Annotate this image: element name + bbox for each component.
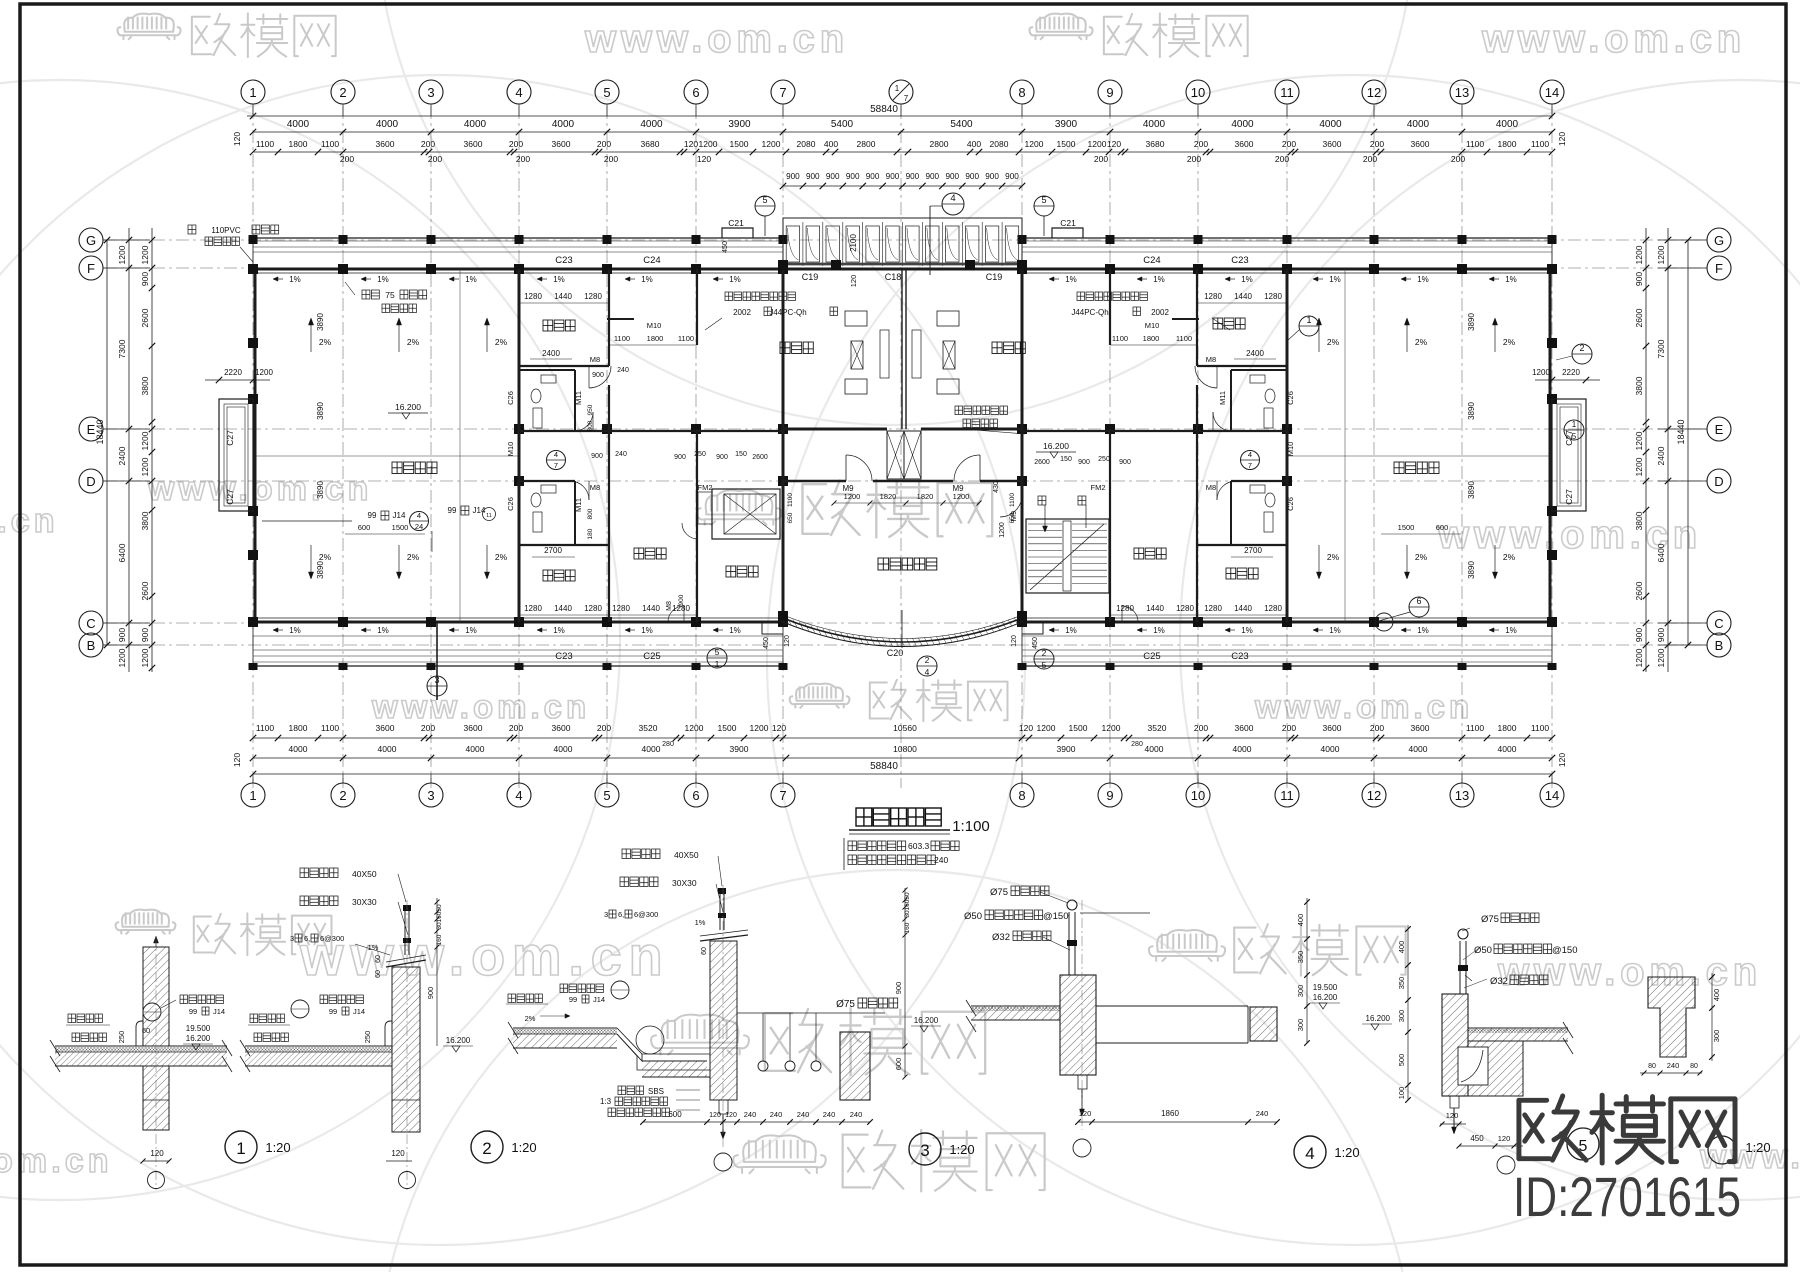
svg-text:3: 3 xyxy=(604,910,608,919)
svg-text:3520: 3520 xyxy=(1148,723,1167,733)
detail 4 parapet with railing xyxy=(966,900,1277,1130)
svg-text:18440: 18440 xyxy=(95,419,105,444)
svg-text:2%: 2% xyxy=(1415,552,1428,562)
svg-text:C25: C25 xyxy=(1143,651,1160,662)
svg-text:600: 600 xyxy=(894,1058,903,1071)
central flue shafts xyxy=(887,431,921,479)
svg-text:7300: 7300 xyxy=(117,339,127,358)
reception hall labels xyxy=(780,342,813,354)
right rooms partitions xyxy=(1022,269,1287,622)
svg-text:200: 200 xyxy=(1363,154,1377,164)
svg-text:900: 900 xyxy=(965,172,979,181)
svg-text:2%: 2% xyxy=(1503,552,1516,562)
svg-text:3: 3 xyxy=(290,934,294,943)
svg-text:240: 240 xyxy=(1667,1061,1680,1070)
svg-text:3: 3 xyxy=(920,1141,929,1160)
svg-text:1%: 1% xyxy=(289,275,301,284)
svg-text:120: 120 xyxy=(725,1112,737,1119)
svg-text:1280: 1280 xyxy=(1204,604,1222,613)
svg-text:C26: C26 xyxy=(1286,497,1295,511)
note box xyxy=(843,838,845,870)
svg-text:900: 900 xyxy=(591,453,603,460)
svg-text:4000: 4000 xyxy=(1496,119,1519,130)
svg-text:10560: 10560 xyxy=(893,723,917,733)
svg-text:4000: 4000 xyxy=(287,119,310,130)
left rooms bath fixtures xyxy=(531,375,556,532)
svg-text:4: 4 xyxy=(925,667,930,677)
svg-text:4000: 4000 xyxy=(552,119,575,130)
svg-text:2: 2 xyxy=(339,85,346,100)
detail 4 dims xyxy=(1073,898,1340,1157)
svg-text:5: 5 xyxy=(603,788,610,803)
svg-text:1200: 1200 xyxy=(140,245,150,264)
svg-text:1440: 1440 xyxy=(554,604,572,613)
svg-text:2: 2 xyxy=(339,788,346,803)
svg-text:4: 4 xyxy=(515,85,522,100)
window labels on walls xyxy=(555,255,1248,662)
svg-text:2800: 2800 xyxy=(857,139,876,149)
svg-text:430: 430 xyxy=(993,481,1000,493)
svg-text:www.om.cn: www.om.cn xyxy=(371,688,590,725)
left rooms partitions xyxy=(519,269,783,622)
svg-text:J14: J14 xyxy=(593,995,605,1004)
svg-text:4000: 4000 xyxy=(1409,744,1428,754)
svg-text:3600: 3600 xyxy=(1411,723,1430,733)
svg-text:4: 4 xyxy=(1305,1144,1314,1163)
roof areas interior lines xyxy=(255,269,1550,622)
svg-text:120: 120 xyxy=(232,753,242,767)
svg-text:900: 900 xyxy=(1005,172,1019,181)
svg-text:6: 6 xyxy=(692,788,699,803)
svg-text:200: 200 xyxy=(1451,154,1465,164)
svg-text:400: 400 xyxy=(1397,941,1406,954)
svg-text:6: 6 xyxy=(1416,596,1421,606)
svg-text:240: 240 xyxy=(744,1110,757,1119)
svg-text:1200: 1200 xyxy=(1634,245,1644,264)
svg-text:C: C xyxy=(1714,616,1723,631)
svg-text:1200: 1200 xyxy=(1656,245,1666,264)
svg-text:500: 500 xyxy=(1397,1054,1406,1067)
svg-text:4000: 4000 xyxy=(376,119,399,130)
svg-text:60: 60 xyxy=(142,1026,150,1035)
svg-text:7: 7 xyxy=(904,94,909,103)
svg-text:2%: 2% xyxy=(1327,337,1340,347)
svg-text:1%: 1% xyxy=(553,275,565,284)
svg-text:10: 10 xyxy=(1191,85,1205,100)
svg-text:4000: 4000 xyxy=(1498,744,1517,754)
svg-text:www.om.cn: www.om.cn xyxy=(147,470,373,508)
svg-text:2600: 2600 xyxy=(1634,581,1644,600)
svg-text:1280: 1280 xyxy=(524,292,542,301)
svg-text:1820: 1820 xyxy=(880,492,897,501)
svg-text:120: 120 xyxy=(1011,635,1018,647)
svg-text:C26: C26 xyxy=(506,391,515,405)
svg-text:www.om.cn: www.om.cn xyxy=(1497,950,1762,994)
svg-text:250: 250 xyxy=(363,1031,372,1044)
svg-text:3890: 3890 xyxy=(316,313,325,331)
svg-text:1280: 1280 xyxy=(1264,604,1282,613)
svg-text:110PVC: 110PVC xyxy=(211,226,240,235)
svg-text:2220: 2220 xyxy=(224,368,242,377)
svg-text:1%: 1% xyxy=(729,626,741,635)
svg-text:30: 30 xyxy=(436,922,443,930)
svg-text:350: 350 xyxy=(1296,951,1305,964)
svg-text:240: 240 xyxy=(615,451,627,458)
svg-text:2%: 2% xyxy=(1503,337,1516,347)
svg-text:900: 900 xyxy=(674,454,686,461)
roof dims 3890 xyxy=(316,313,1476,579)
svg-text:1800: 1800 xyxy=(289,723,308,733)
svg-text:1%: 1% xyxy=(1417,626,1429,635)
svg-text:www.om.cn: www.om.cn xyxy=(1481,17,1746,61)
svg-text:C26: C26 xyxy=(506,497,515,511)
svg-text:400: 400 xyxy=(967,139,981,149)
svg-text:2600: 2600 xyxy=(752,454,768,461)
svg-text:1800: 1800 xyxy=(289,139,308,149)
svg-text:2220: 2220 xyxy=(1562,368,1580,377)
svg-text:300: 300 xyxy=(1296,985,1305,998)
louvre labels xyxy=(802,234,1003,288)
svg-text:C19: C19 xyxy=(986,272,1003,282)
svg-text:1%: 1% xyxy=(695,918,706,927)
svg-text:M8: M8 xyxy=(666,601,673,611)
svg-text:240: 240 xyxy=(1256,1109,1269,1118)
detail 5 labels xyxy=(1462,913,1578,988)
svg-text:5: 5 xyxy=(1041,195,1046,205)
svg-text:2%: 2% xyxy=(1327,552,1340,562)
svg-text:3600: 3600 xyxy=(464,723,483,733)
detail 1 bubble xyxy=(225,1131,291,1163)
svg-text:1%: 1% xyxy=(1153,275,1165,284)
svg-text:om.cn: om.cn xyxy=(0,1142,113,1180)
svg-text:3900: 3900 xyxy=(728,119,751,130)
svg-text:9: 9 xyxy=(1106,85,1113,100)
svg-text:1: 1 xyxy=(249,85,256,100)
letter bubbles xyxy=(79,228,1731,657)
svg-text:F: F xyxy=(1715,261,1723,276)
svg-text:6,: 6, xyxy=(304,934,310,943)
detail 4 labels xyxy=(964,886,1070,950)
detail 3 labels xyxy=(506,849,723,1117)
svg-text:1200: 1200 xyxy=(953,492,970,501)
svg-text:200: 200 xyxy=(1282,723,1296,733)
svg-text:1200: 1200 xyxy=(117,245,127,264)
detail 3 right dim chain xyxy=(894,888,941,1080)
svg-text:1200: 1200 xyxy=(1634,431,1644,450)
svg-text:4: 4 xyxy=(417,511,421,520)
svg-text:1100: 1100 xyxy=(787,493,794,507)
svg-text:160: 160 xyxy=(904,922,911,933)
svg-text:1200: 1200 xyxy=(1532,368,1550,377)
svg-text:1100: 1100 xyxy=(321,723,340,733)
svg-text:M8: M8 xyxy=(590,355,600,364)
svg-text:900: 900 xyxy=(140,628,150,642)
svg-text:1500: 1500 xyxy=(1398,523,1415,532)
svg-text:6: 6 xyxy=(692,85,699,100)
svg-text:1200: 1200 xyxy=(1088,139,1107,149)
svg-text:900: 900 xyxy=(592,372,604,379)
svg-text:3800: 3800 xyxy=(140,376,150,395)
svg-text:160: 160 xyxy=(436,911,443,922)
svg-text:16.200: 16.200 xyxy=(1043,441,1069,451)
svg-text:3520: 3520 xyxy=(639,723,658,733)
watermark row1 xyxy=(117,14,180,40)
svg-text:1%: 1% xyxy=(289,626,301,635)
svg-text:Ø50: Ø50 xyxy=(964,911,982,922)
svg-text:120: 120 xyxy=(232,132,242,146)
svg-text:3890: 3890 xyxy=(1467,313,1476,331)
svg-text:14: 14 xyxy=(1545,788,1559,803)
top dimension chains xyxy=(232,104,1567,189)
svg-text:1500: 1500 xyxy=(1057,139,1076,149)
svg-text:B: B xyxy=(1715,638,1724,653)
svg-text:1500: 1500 xyxy=(1069,723,1088,733)
svg-text:1%: 1% xyxy=(1329,275,1341,284)
svg-text:2: 2 xyxy=(1579,343,1584,353)
svg-text:1100: 1100 xyxy=(1466,723,1485,733)
svg-text:3900: 3900 xyxy=(1057,744,1076,754)
svg-text:1%: 1% xyxy=(729,275,741,284)
svg-text:3600: 3600 xyxy=(1323,139,1342,149)
svg-text:M11: M11 xyxy=(574,498,583,512)
svg-text:10: 10 xyxy=(1191,788,1205,803)
svg-text:80: 80 xyxy=(1648,1063,1656,1070)
svg-text:1%: 1% xyxy=(465,626,477,635)
svg-text:1%: 1% xyxy=(1329,626,1341,635)
svg-text:5: 5 xyxy=(715,647,720,657)
detail circle 4 top xyxy=(930,193,964,275)
svg-text:240: 240 xyxy=(823,1110,836,1119)
svg-text:4000: 4000 xyxy=(289,744,308,754)
detail 1 wall section xyxy=(50,936,232,1190)
top balcony left wing xyxy=(249,235,1557,269)
svg-text:2100: 2100 xyxy=(849,234,858,252)
svg-text:900: 900 xyxy=(866,172,880,181)
svg-text:120: 120 xyxy=(784,635,791,647)
svg-text:3: 3 xyxy=(427,85,434,100)
svg-text:600: 600 xyxy=(1436,523,1449,532)
svg-text:1440: 1440 xyxy=(642,604,660,613)
svg-text:450: 450 xyxy=(722,241,729,253)
curved front wall xyxy=(778,610,1027,648)
svg-text:3890: 3890 xyxy=(316,481,325,499)
svg-text:M8: M8 xyxy=(1206,355,1216,364)
svg-text:1860: 1860 xyxy=(1161,1109,1179,1118)
svg-text:14: 14 xyxy=(1545,85,1559,100)
svg-text:1%: 1% xyxy=(641,626,653,635)
svg-text:5: 5 xyxy=(1042,660,1047,670)
svg-text:M8: M8 xyxy=(1206,483,1216,492)
svg-text:280: 280 xyxy=(1131,741,1143,748)
level marks 16.200 xyxy=(388,402,1076,458)
svg-text:12: 12 xyxy=(1367,788,1381,803)
svg-text:900: 900 xyxy=(925,172,939,181)
svg-text:1800: 1800 xyxy=(1498,723,1517,733)
svg-text:2400: 2400 xyxy=(1656,446,1666,465)
svg-text:900: 900 xyxy=(1634,272,1644,286)
svg-text:200: 200 xyxy=(1194,139,1208,149)
svg-text:1%: 1% xyxy=(1153,626,1165,635)
svg-text:40X50: 40X50 xyxy=(352,869,377,879)
svg-text:FM2: FM2 xyxy=(698,483,713,492)
svg-text:900: 900 xyxy=(906,172,920,181)
svg-text:1280: 1280 xyxy=(1204,292,1222,301)
left rooms doors xyxy=(570,366,684,622)
svg-text:200: 200 xyxy=(340,154,354,164)
svg-text:2002: 2002 xyxy=(733,308,751,317)
svg-text:@150: @150 xyxy=(1552,945,1578,956)
left rooms dims xyxy=(506,292,794,615)
svg-text:1:100: 1:100 xyxy=(952,818,990,835)
svg-text:99: 99 xyxy=(329,1007,337,1016)
svg-text:C19: C19 xyxy=(802,272,819,282)
svg-text:250: 250 xyxy=(117,1031,126,1044)
svg-text:C23: C23 xyxy=(555,255,572,266)
svg-text:99: 99 xyxy=(368,511,377,520)
svg-text:200: 200 xyxy=(428,154,442,164)
svg-text:7: 7 xyxy=(779,85,786,100)
detail 3 bubble xyxy=(909,1133,975,1165)
svg-text:120: 120 xyxy=(709,1112,721,1119)
svg-text:J44PC-Qh: J44PC-Qh xyxy=(769,308,806,317)
svg-text:1820: 1820 xyxy=(917,492,934,501)
svg-text:1280: 1280 xyxy=(1176,604,1194,613)
svg-text:@150: @150 xyxy=(1043,911,1069,922)
svg-text:C21: C21 xyxy=(1060,218,1076,228)
svg-text:1200: 1200 xyxy=(1634,457,1644,476)
svg-text:4000: 4000 xyxy=(1233,744,1252,754)
svg-text:1200: 1200 xyxy=(1656,648,1666,667)
svg-text:Ø75: Ø75 xyxy=(990,887,1008,898)
svg-text:1100: 1100 xyxy=(678,334,694,343)
svg-text:4: 4 xyxy=(515,788,522,803)
detail 2 bubble xyxy=(471,1131,537,1163)
detail 2 parapet section xyxy=(240,900,426,1190)
svg-text:1:3: 1:3 xyxy=(600,1097,612,1106)
svg-text:1500: 1500 xyxy=(730,139,749,149)
grid bubbles top xyxy=(241,80,1564,116)
svg-text:4: 4 xyxy=(554,450,558,459)
svg-text:400: 400 xyxy=(824,139,838,149)
svg-text:120: 120 xyxy=(1557,132,1567,146)
svg-text:1800: 1800 xyxy=(1143,334,1160,343)
svg-text:4000: 4000 xyxy=(466,744,485,754)
svg-text:16.200: 16.200 xyxy=(1366,1014,1391,1023)
svg-text:C24: C24 xyxy=(1143,255,1160,266)
right rooms doors xyxy=(1122,366,1236,622)
svg-text:1100: 1100 xyxy=(321,139,340,149)
svg-text:99: 99 xyxy=(448,506,457,515)
svg-text:1280: 1280 xyxy=(584,292,602,301)
svg-text:3900: 3900 xyxy=(1055,119,1078,130)
svg-text:350: 350 xyxy=(1397,977,1406,990)
svg-text:240: 240 xyxy=(797,1110,810,1119)
svg-text:1100: 1100 xyxy=(1112,334,1128,343)
svg-text:M10: M10 xyxy=(647,321,662,330)
svg-text:ID:2701615: ID:2701615 xyxy=(1513,1165,1741,1228)
svg-text:6400: 6400 xyxy=(117,543,127,562)
svg-text:30X30: 30X30 xyxy=(352,897,377,907)
svg-text:1200: 1200 xyxy=(844,492,861,501)
svg-text:2600: 2600 xyxy=(140,308,150,327)
svg-text:1280: 1280 xyxy=(1264,292,1282,301)
svg-text:30: 30 xyxy=(904,910,911,918)
svg-text:6@300: 6@300 xyxy=(320,934,344,943)
svg-text:900: 900 xyxy=(886,172,900,181)
svg-text:3600: 3600 xyxy=(376,723,395,733)
svg-text:C20: C20 xyxy=(887,648,904,658)
svg-text:30X30: 30X30 xyxy=(672,878,697,888)
svg-text:200: 200 xyxy=(1194,723,1208,733)
svg-text:8: 8 xyxy=(1018,85,1025,100)
svg-text:1100: 1100 xyxy=(1009,493,1016,507)
svg-text:1%: 1% xyxy=(641,275,653,284)
detail circle 2 right edge xyxy=(1556,343,1592,364)
svg-text:1200: 1200 xyxy=(140,648,150,667)
svg-text:99: 99 xyxy=(569,995,577,1004)
wall columns xyxy=(248,264,1557,627)
svg-text:80: 80 xyxy=(1690,1063,1698,1070)
svg-text:600: 600 xyxy=(668,1110,682,1119)
svg-text:120: 120 xyxy=(1446,1111,1459,1120)
detail circle 3 bottom-left xyxy=(427,622,447,700)
svg-text:603.3: 603.3 xyxy=(908,841,930,851)
svg-text:M10: M10 xyxy=(506,442,515,457)
svg-text:om.cn: om.cn xyxy=(0,502,59,540)
svg-text:13: 13 xyxy=(1455,788,1469,803)
svg-text:1280: 1280 xyxy=(1116,604,1134,613)
svg-text:1%: 1% xyxy=(368,943,379,952)
svg-text:120: 120 xyxy=(1498,1134,1511,1143)
svg-text:120: 120 xyxy=(1079,1109,1092,1118)
svg-text:1280: 1280 xyxy=(612,604,630,613)
svg-text:3890: 3890 xyxy=(1467,561,1476,579)
svg-text:280: 280 xyxy=(662,741,674,748)
detail circle 5 top-right xyxy=(1034,195,1083,238)
svg-text:450: 450 xyxy=(1032,637,1039,649)
svg-text:1%: 1% xyxy=(1241,275,1253,284)
detail 1 labels xyxy=(66,995,225,1189)
svg-text:240: 240 xyxy=(850,1110,863,1119)
curved wall labels xyxy=(707,622,1054,677)
svg-text:900: 900 xyxy=(1078,459,1090,466)
svg-text:900: 900 xyxy=(426,987,435,1000)
svg-text:1%: 1% xyxy=(377,626,389,635)
svg-text:1200: 1200 xyxy=(1102,723,1121,733)
svg-text:3800: 3800 xyxy=(140,511,150,530)
svg-text:C18: C18 xyxy=(885,272,902,282)
svg-text:www.om.cn: www.om.cn xyxy=(584,17,849,61)
svg-text:1:20: 1:20 xyxy=(265,1140,290,1155)
svg-text:www.om.cn: www.om.cn xyxy=(299,924,669,987)
detail 6 T-section xyxy=(1640,973,1721,1076)
svg-text:C21: C21 xyxy=(728,218,744,228)
svg-text:120: 120 xyxy=(684,139,698,149)
svg-text:450: 450 xyxy=(763,637,770,649)
svg-text:4: 4 xyxy=(1248,450,1252,459)
svg-text:11: 11 xyxy=(486,513,492,519)
svg-text:120: 120 xyxy=(772,723,786,733)
svg-text:4000: 4000 xyxy=(1143,119,1166,130)
svg-text:1: 1 xyxy=(715,659,720,669)
title 五层平面图 1:100 xyxy=(856,808,941,826)
svg-text:800: 800 xyxy=(587,420,594,431)
svg-text:3600: 3600 xyxy=(552,139,571,149)
svg-text:1500: 1500 xyxy=(392,523,409,532)
svg-text:1100: 1100 xyxy=(1531,139,1550,149)
flue note labels xyxy=(705,292,1230,330)
svg-text:200: 200 xyxy=(597,139,611,149)
